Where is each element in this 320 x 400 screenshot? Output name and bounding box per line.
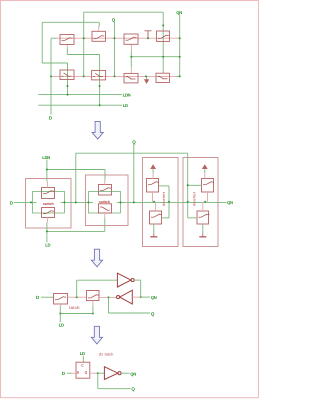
svg-text:Q: Q (132, 139, 136, 144)
svg-text:inverter: inverter (161, 191, 166, 206)
svg-text:switch: switch (43, 202, 54, 206)
svg-text:LD: LD (80, 351, 85, 356)
svg-text:LD: LD (123, 103, 128, 108)
svg-text:d1 latch: d1 latch (99, 353, 114, 357)
svg-text:QN: QN (130, 371, 136, 376)
svg-text:switch: switch (99, 200, 110, 204)
svg-text:Q: Q (151, 312, 155, 317)
svg-text:LD: LD (45, 243, 50, 248)
svg-text:QN: QN (176, 10, 182, 15)
svg-text:LDN: LDN (42, 155, 50, 160)
svg-text:Q: Q (85, 370, 88, 374)
svg-text:Q: Q (131, 386, 135, 391)
svg-text:LDN: LDN (123, 93, 131, 98)
svg-text:Q: Q (112, 17, 116, 22)
svg-text:inverter: inverter (191, 191, 196, 206)
svg-text:latch: latch (69, 305, 80, 310)
svg-text:QN: QN (227, 200, 233, 205)
svg-text:LD: LD (59, 323, 64, 328)
svg-text:QN: QN (151, 295, 157, 300)
